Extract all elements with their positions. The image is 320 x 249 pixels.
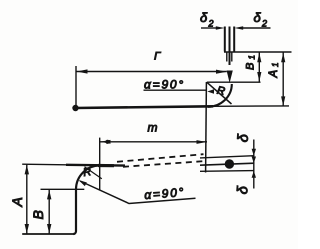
dimension A1 line with arrows: [281, 53, 285, 107]
delta dimension line (right): [252, 140, 256, 189]
B label: [30, 210, 46, 219]
lower corner construction diagonal: [85, 167, 102, 179]
B1 label: [245, 55, 257, 70]
alpha leader arrow (upper): [207, 89, 214, 93]
svg-text:α=90°: α=90°: [144, 78, 185, 92]
alpha=90 underline leader (upper): [144, 89, 207, 91]
dimension G line: [76, 71, 227, 73]
G label: [154, 51, 161, 63]
upper leg wall ticks below end line: [227, 52, 232, 62]
svg-text:1: 1: [248, 55, 257, 59]
blank end bar: middle line: [200, 163, 254, 165]
alpha=90 label (upper): [144, 78, 185, 92]
upper profile outer bend arc: [208, 84, 232, 107]
m label: [148, 121, 158, 135]
dimension G: left extension line: [75, 66, 77, 108]
upper leg: right extension bar: [233, 27, 235, 52]
svg-text:Γ: Γ: [154, 51, 161, 63]
svg-text:В: В: [30, 210, 46, 219]
bend point marker (solid down triangle): [227, 71, 233, 84]
corner tangent vertical line / m right extension: [205, 82, 208, 173]
alpha=90 label (lower): [144, 185, 186, 202]
svg-text:δ: δ: [235, 185, 252, 195]
R label (upper corner): [216, 85, 226, 98]
svg-text:2: 2: [261, 19, 267, 29]
dimension m line: [100, 141, 207, 143]
svg-text:δ: δ: [254, 10, 262, 25]
R label (lower corner): [82, 166, 92, 179]
dimension m: left extension line: [99, 138, 101, 191]
dimension B line with arrows: [47, 190, 51, 234]
delta label (upper right): [236, 133, 253, 143]
dimension G left arrow: [77, 69, 88, 73]
svg-text:В: В: [245, 63, 257, 70]
dimension A line with arrows: [25, 165, 29, 234]
top end extension line for B1/A1: [224, 51, 292, 53]
svg-text:δ: δ: [236, 133, 253, 143]
dimension m right arrow: [197, 140, 207, 144]
svg-text:R: R: [216, 85, 226, 98]
leader line to alpha label (lower): [80, 181, 196, 204]
B extension line (tangent): [41, 188, 85, 190]
A1 label: [268, 63, 280, 79]
upper leg: middle bar: [229, 27, 231, 66]
node: dot at left end of upper profile bottom edge: [72, 105, 78, 111]
lower profile top edge (thick): [66, 164, 125, 167]
dimension B1 line with arrows: [257, 53, 261, 82]
extension of bottom edge to the right for A1: [213, 105, 289, 107]
fillet leader arrow (lower): [79, 180, 87, 186]
corner tangent horizontal line / B1 lower extension: [207, 81, 261, 83]
blank end bar: top line: [200, 156, 254, 158]
upper profile bottom edge (thick): [75, 106, 213, 108]
delta label (lower right): [235, 185, 252, 195]
dimension m left arrow: [100, 140, 111, 144]
blank end bar: bottom line: [200, 170, 254, 173]
lower profile top edge: thin extension for A: [22, 163, 66, 166]
lower profile left wall: [73, 190, 76, 235]
A label: [9, 197, 25, 207]
svg-text:m: m: [148, 121, 158, 135]
lower profile outer bend arc: [76, 166, 100, 190]
lower profile bottom end: [22, 233, 74, 235]
dimension G right arrow: [216, 70, 227, 74]
svg-text:2: 2: [208, 19, 214, 29]
dashed blank line (lower): [123, 161, 204, 167]
delta2 label (left): [200, 10, 214, 29]
node: dot on blank end bar: [225, 159, 234, 168]
svg-text:δ: δ: [200, 10, 208, 25]
dashed blank line (upper): [117, 154, 204, 162]
svg-text:1: 1: [271, 63, 280, 67]
fillet leader diagonal in upper corner: [207, 82, 232, 104]
svg-text:А: А: [268, 70, 280, 79]
delta2 dimension line with arrows: [201, 26, 271, 30]
delta2 label (right): [254, 10, 268, 29]
svg-text:А: А: [9, 197, 25, 207]
upper leg: left extension bar: [224, 27, 226, 52]
